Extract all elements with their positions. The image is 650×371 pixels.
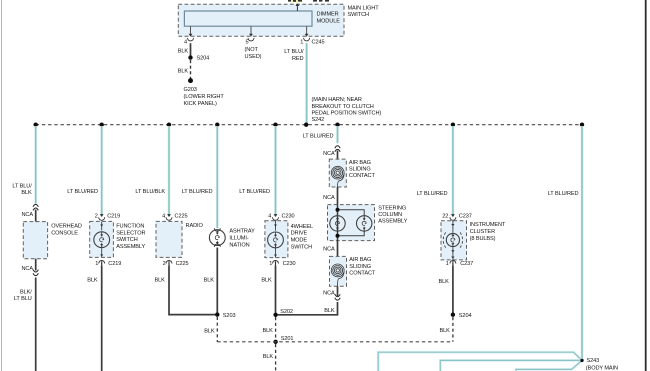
wire out of overhead console bbox=[35, 259, 37, 271]
svg-text:(MAIN HARN; NEAR: (MAIN HARN; NEAR bbox=[312, 97, 362, 103]
svg-text:NCA: NCA bbox=[323, 151, 335, 157]
label MAIN LIGHT SWITCH bbox=[348, 6, 380, 19]
overhead console box bbox=[23, 222, 47, 259]
svg-text:MODE: MODE bbox=[291, 238, 308, 244]
wire into upper air bag sliding contact bbox=[337, 151, 339, 173]
air bag sliding contact coil (upper) bbox=[331, 166, 344, 187]
svg-text:C237: C237 bbox=[459, 213, 472, 219]
bus junction at ashtray drop bbox=[215, 123, 219, 127]
svg-text:PEDAL POSITION SWITCH): PEDAL POSITION SWITCH) bbox=[312, 110, 382, 116]
air bag sliding contact box (lower) bbox=[330, 256, 347, 286]
svg-text:AIR BAG: AIR BAG bbox=[349, 160, 371, 166]
wire to S243 splice (lower feed) bbox=[516, 361, 581, 371]
svg-text:NCA: NCA bbox=[21, 212, 33, 218]
svg-text:BLK: BLK bbox=[21, 190, 32, 196]
wire out of lower air bag contact bbox=[337, 286, 339, 297]
svg-text:NCA: NCA bbox=[323, 246, 335, 252]
radio box bbox=[156, 221, 182, 257]
function selector internal lead bottom bbox=[100, 248, 103, 258]
in-line connector below air bag chain bbox=[335, 294, 340, 300]
connector C225 pin 4 bbox=[166, 214, 172, 220]
svg-text:RED: RED bbox=[292, 56, 304, 62]
svg-text:NCA: NCA bbox=[21, 266, 33, 272]
svg-text:C237: C237 bbox=[460, 261, 473, 267]
label INSTRUMENT CLUSTER (8 BULBS) bbox=[470, 222, 506, 242]
svg-text:LT BLU/BLK: LT BLU/BLK bbox=[135, 189, 165, 195]
svg-text:2: 2 bbox=[163, 261, 166, 267]
svg-text:DRIVE: DRIVE bbox=[291, 231, 308, 237]
svg-text:C230: C230 bbox=[282, 213, 295, 219]
in-line connector above air bag sliding contact bbox=[335, 146, 340, 152]
svg-text:NCA: NCA bbox=[323, 195, 335, 201]
svg-text:22: 22 bbox=[442, 213, 448, 219]
label LT BLU/BLK overhead console bbox=[12, 183, 32, 196]
instrument cluster internal lead top bbox=[451, 221, 454, 233]
svg-text:LT BLU/RED: LT BLU/RED bbox=[417, 191, 448, 197]
label ASHTRAY ILLUMI-NATION bbox=[229, 229, 255, 249]
svg-text:BLK: BLK bbox=[263, 328, 274, 334]
svg-text:BLK: BLK bbox=[324, 308, 335, 314]
svg-text:BLK: BLK bbox=[263, 354, 274, 360]
wire to S243 splice (upper feed) bbox=[378, 352, 582, 371]
svg-text:BLK: BLK bbox=[178, 68, 189, 74]
svg-text:2: 2 bbox=[95, 213, 98, 219]
svg-text:KICK PANEL): KICK PANEL) bbox=[184, 101, 218, 107]
label (NOT USED) pin 5 bbox=[245, 47, 262, 60]
label DIMMER MODULE bbox=[317, 12, 341, 25]
svg-text:(LOWER RIGHT: (LOWER RIGHT bbox=[184, 94, 225, 100]
wire BLK function selector to bottom edge bbox=[101, 266, 103, 371]
svg-text:(BODY MAIN: (BODY MAIN bbox=[586, 365, 618, 371]
dashed wire S204 to G203 bbox=[190, 60, 192, 79]
bus junction at function selector drop bbox=[100, 123, 104, 127]
svg-text:LT BLU/: LT BLU/ bbox=[284, 49, 304, 55]
bus junction at radio drop bbox=[167, 123, 171, 127]
cut-off wire label remnant (yellow highlight) above dimmer module bbox=[288, 0, 302, 2]
svg-text:AIR BAG: AIR BAG bbox=[349, 257, 371, 263]
svg-text:CONSOLE: CONSOLE bbox=[51, 230, 78, 236]
ground G203 bbox=[188, 78, 193, 83]
wire LT BLU/RED bus to instrument cluster bbox=[451, 126, 454, 216]
svg-text:S201: S201 bbox=[281, 336, 294, 342]
steering column bulb 2 bbox=[357, 216, 372, 231]
svg-text:1: 1 bbox=[446, 261, 449, 267]
wire LT BLU/BLK bus to overhead console bbox=[34, 126, 37, 204]
steering column bottom junction bbox=[336, 234, 340, 238]
svg-text:BLK/: BLK/ bbox=[20, 289, 32, 295]
wire stub from dimmer module top to cut edge bbox=[296, 3, 300, 11]
connector C219 pin 2 bbox=[99, 214, 105, 220]
svg-text:BLK: BLK bbox=[261, 277, 272, 283]
svg-text:BLK: BLK bbox=[439, 279, 450, 285]
wire BLK instrument cluster to S204 bbox=[452, 266, 454, 315]
svg-text:C219: C219 bbox=[107, 213, 120, 219]
wire LT BLU/RED bus to 4wd switch bbox=[274, 126, 277, 216]
label AIR BAG SLIDING CONTACT (upper) bbox=[349, 160, 376, 179]
svg-text:BLK: BLK bbox=[155, 277, 166, 283]
svg-text:DIMMER: DIMMER bbox=[317, 12, 339, 18]
svg-text:LT BLU/RED: LT BLU/RED bbox=[67, 189, 98, 195]
wire BLK from dimmer pin 4 to S204 bbox=[190, 43, 192, 55]
connector C230 pin 4 bbox=[273, 214, 279, 220]
svg-text:MAIN LIGHT: MAIN LIGHT bbox=[348, 6, 380, 12]
svg-text:S242: S242 bbox=[312, 117, 325, 123]
main light switch dashed outline bbox=[178, 4, 344, 36]
svg-text:LT BLU/RED: LT BLU/RED bbox=[548, 191, 579, 197]
air bag sliding contact box (upper) bbox=[329, 159, 346, 187]
ashtray illumination bulb bbox=[209, 230, 225, 246]
svg-text:SELECTOR: SELECTOR bbox=[116, 230, 145, 236]
4wd switch internal lead bottom bbox=[274, 248, 277, 258]
4wheel drive mode switch box bbox=[265, 221, 288, 258]
svg-text:CONTACT: CONTACT bbox=[349, 270, 376, 276]
wire LT BLU/RED bus right drop to S243 bbox=[581, 126, 584, 360]
svg-text:ASHTRAY: ASHTRAY bbox=[229, 229, 255, 235]
function selector illumination bulb bbox=[94, 232, 110, 248]
svg-text:(NOT: (NOT bbox=[245, 47, 259, 53]
air bag sliding contact coil (lower) bbox=[331, 264, 344, 286]
dashed wire S202 down to S201 bbox=[275, 317, 277, 342]
svg-text:COLUMN: COLUMN bbox=[378, 212, 402, 218]
svg-text:BLK: BLK bbox=[440, 328, 451, 334]
dashed wire S201 to bottom edge bbox=[275, 344, 277, 371]
splice S204 (cluster ground) bbox=[451, 313, 455, 317]
4wd switch illumination bulb bbox=[268, 232, 284, 248]
dimmer module box U1 bbox=[184, 11, 312, 26]
dimmer module pin 1 stub bbox=[304, 26, 310, 41]
function selector switch assembly box bbox=[90, 221, 114, 257]
svg-text:LT BLU: LT BLU bbox=[14, 296, 32, 302]
svg-text:SWITCH: SWITCH bbox=[348, 12, 370, 18]
svg-text:5: 5 bbox=[245, 40, 248, 46]
svg-text:ILLUMI-: ILLUMI- bbox=[229, 235, 248, 241]
svg-text:LT BLU/RED: LT BLU/RED bbox=[182, 189, 213, 195]
svg-text:USED): USED) bbox=[245, 54, 262, 60]
wire BLK radio down and right to S203 bbox=[169, 266, 216, 315]
wire BLK ashtray to S203 bbox=[216, 248, 218, 315]
svg-text:4: 4 bbox=[162, 213, 165, 219]
svg-text:C225: C225 bbox=[176, 261, 189, 267]
label 4WHEEL DRIVE MODE SWITCH bbox=[291, 224, 313, 251]
label G203 (LOWER RIGHT KICK PANEL) bbox=[184, 87, 225, 107]
bus junction at 4wd switch drop bbox=[273, 123, 277, 127]
svg-text:SLIDING: SLIDING bbox=[349, 166, 371, 172]
svg-text:4: 4 bbox=[184, 40, 187, 46]
svg-text:S203: S203 bbox=[223, 313, 236, 319]
4wd switch internal lead top bbox=[274, 221, 277, 231]
svg-text:BLK: BLK bbox=[178, 48, 189, 54]
svg-text:1: 1 bbox=[95, 261, 98, 267]
svg-text:FUNCTION: FUNCTION bbox=[116, 223, 144, 229]
connector C230 pin 1 bbox=[273, 261, 279, 267]
svg-text:INSTRUMENT: INSTRUMENT bbox=[470, 222, 506, 228]
svg-text:OVERHEAD: OVERHEAD bbox=[51, 224, 82, 230]
svg-text:BLK: BLK bbox=[204, 329, 215, 335]
svg-text:ASSEMBLY: ASSEMBLY bbox=[116, 244, 145, 250]
steering column internal main wire bbox=[337, 205, 339, 241]
wire BLK/LT BLU overhead console to bottom edge bbox=[35, 278, 37, 371]
bus junction at instrument cluster drop bbox=[451, 123, 455, 127]
svg-text:C230: C230 bbox=[283, 261, 296, 267]
dimmer module pin 4 stub bbox=[188, 26, 194, 41]
svg-text:CLUSTER: CLUSTER bbox=[470, 229, 495, 235]
svg-text:4: 4 bbox=[268, 213, 271, 219]
svg-text:SWITCH: SWITCH bbox=[116, 237, 138, 243]
svg-text:S204: S204 bbox=[459, 313, 472, 319]
left page border line bbox=[1, 0, 3, 371]
instrument cluster box bbox=[441, 221, 467, 260]
label STEERING COLUMN ASSEMBLY bbox=[378, 205, 407, 224]
steering column assembly box bbox=[328, 205, 375, 241]
svg-text:S204: S204 bbox=[197, 55, 210, 61]
wire BLK 4wd switch to S202 bbox=[275, 266, 277, 315]
dashed wire S203 down to ground bus bbox=[216, 317, 218, 342]
steering column bulb 1 bbox=[330, 216, 345, 231]
connector C237 pin 22 bbox=[450, 214, 456, 220]
svg-text:BLK: BLK bbox=[87, 277, 98, 283]
svg-text:RADIO: RADIO bbox=[186, 223, 204, 229]
svg-text:SWITCH: SWITCH bbox=[291, 244, 313, 250]
svg-text:G203: G203 bbox=[184, 87, 197, 93]
wire to S243 splice (middle feed) bbox=[440, 360, 582, 371]
label FUNCTION SELECTOR SWITCH ASSEMBLY bbox=[116, 223, 145, 250]
connector C225 pin 2 bbox=[166, 261, 172, 267]
svg-text:CONTACT: CONTACT bbox=[349, 173, 376, 179]
svg-text:SLIDING: SLIDING bbox=[349, 264, 371, 270]
wire LT BLU/RED bus to function selector bbox=[100, 126, 103, 216]
function selector internal lead top bbox=[100, 221, 103, 230]
svg-text:LT BLU/: LT BLU/ bbox=[12, 183, 32, 189]
svg-text:NATION: NATION bbox=[229, 242, 249, 248]
wire BLK steering chain to S202 bbox=[278, 302, 338, 315]
wire LT BLU/RED bus to steering column chain bbox=[336, 126, 339, 143]
connector C219 pin 1 bbox=[99, 261, 105, 267]
wire LT BLU/RED bus to ashtray bulb bbox=[216, 126, 219, 228]
wire LT BLU/BLK bus to radio bbox=[168, 126, 171, 216]
svg-text:STEERING: STEERING bbox=[378, 205, 406, 211]
splice S204 (dimmer ground) bbox=[188, 55, 192, 59]
svg-text:MODULE: MODULE bbox=[317, 18, 341, 24]
wire airbag1 to steering column assembly bbox=[337, 187, 339, 205]
connector C237 pin 1 bbox=[450, 261, 456, 267]
bus junction at dimmer feed drop bbox=[304, 123, 308, 127]
in-line connector above overhead console bbox=[33, 204, 38, 210]
note MAIN HARN BREAKOUT S242 bbox=[312, 97, 382, 123]
steering column top junction bbox=[336, 208, 340, 212]
dashed distribution bus bbox=[36, 124, 582, 126]
instrument cluster multiple-bulb dashed parentheses bbox=[443, 232, 462, 247]
dashed ground bus S203-S201-S204 bbox=[217, 341, 453, 343]
wire column to lower air bag contact bbox=[337, 241, 339, 257]
svg-text:C225: C225 bbox=[175, 213, 188, 219]
dashed wire S204 down to ground bus bbox=[452, 317, 454, 342]
svg-text:BREAKOUT TO CLUTCH: BREAKOUT TO CLUTCH bbox=[312, 104, 374, 110]
svg-text:S243: S243 bbox=[587, 358, 600, 364]
bus junction at right drop drop bbox=[580, 123, 584, 127]
ashtray bulb top connector cup bbox=[214, 228, 220, 231]
label BLK/LT BLU bbox=[14, 289, 32, 302]
svg-text:LT BLU/RED: LT BLU/RED bbox=[303, 134, 334, 140]
bus junction at steering column drop bbox=[335, 123, 339, 127]
right page border line bbox=[645, 0, 647, 371]
cut-off text remnant right of highlight bbox=[313, 0, 329, 2]
svg-text:ASSEMBLY: ASSEMBLY bbox=[378, 219, 407, 225]
svg-text:(8 BULBS): (8 BULBS) bbox=[470, 236, 496, 242]
ashtray bulb bottom connector cup bbox=[214, 244, 220, 247]
bus junction at overhead console drop bbox=[34, 123, 38, 127]
svg-text:1: 1 bbox=[269, 261, 272, 267]
svg-text:C219: C219 bbox=[108, 261, 121, 267]
svg-text:BLK: BLK bbox=[204, 277, 215, 283]
instrument cluster internal lead bottom bbox=[451, 247, 454, 260]
in-line connector below overhead console bbox=[33, 270, 38, 276]
label AIR BAG SLIDING CONTACT (lower) bbox=[349, 257, 376, 276]
dimmer module pin 5 stub bbox=[248, 26, 254, 41]
svg-text:1: 1 bbox=[300, 40, 303, 46]
splice S201 bbox=[273, 340, 277, 344]
instrument cluster bulb bbox=[446, 233, 459, 246]
svg-text:C245: C245 bbox=[312, 40, 325, 46]
svg-text:LT BLU/RED: LT BLU/RED bbox=[239, 189, 270, 195]
splice S243 bbox=[580, 359, 583, 362]
wire LT BLU/RED from dimmer pin 1 down to bus bbox=[305, 43, 308, 125]
label OVERHEAD CONSOLE bbox=[51, 224, 82, 237]
label LT BLU/RED pin1 bbox=[284, 49, 304, 62]
steering column branch to second bulb bbox=[338, 210, 365, 236]
splice S203 bbox=[215, 312, 219, 316]
splice S202 bbox=[273, 313, 277, 317]
svg-text:NCA: NCA bbox=[323, 290, 335, 296]
svg-text:4WHEEL: 4WHEEL bbox=[291, 224, 313, 230]
wire into overhead console bbox=[35, 210, 37, 222]
